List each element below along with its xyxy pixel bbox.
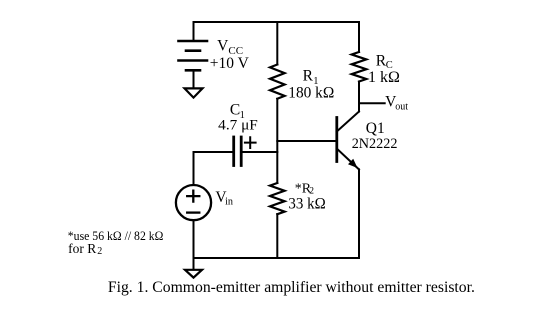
wire RC top lead: [358, 22, 360, 52]
svg-text:V: V: [217, 37, 229, 54]
svg-text:Fig. 1. Common-emitter amplifi: Fig. 1. Common-emitter amplifier without…: [108, 279, 475, 296]
svg-text:out: out: [395, 101, 408, 112]
wire bottom rail: [194, 257, 360, 259]
wire base: [277, 140, 337, 142]
wire top rail: [194, 21, 360, 23]
wire collector vertical: [358, 82, 360, 112]
resistor RC: [352, 52, 367, 82]
ground (under battery): [185, 88, 203, 97]
resistor R1: [270, 65, 285, 99]
svg-text:in: in: [225, 196, 233, 207]
wire battery top lead: [193, 22, 195, 40]
svg-text:+10 V: +10 V: [210, 55, 250, 72]
wire mid branch (R1 bottom to R2 top): [276, 99, 278, 183]
wire emitter vertical: [358, 169, 360, 258]
battery V1 VCC plates: [179, 41, 208, 70]
capacitor C1 wire left: [194, 151, 234, 153]
source Vin minus sign: [187, 211, 199, 213]
svg-text:2N2222: 2N2222: [352, 136, 398, 152]
svg-text:180 kΩ: 180 kΩ: [288, 85, 334, 102]
transistor Q1 emitter diagonal: [337, 149, 359, 170]
capacitor C1 wire right: [241, 151, 277, 153]
wire R1 top lead: [276, 22, 278, 65]
svg-text:2: 2: [97, 246, 102, 257]
capacitor C1 plates: [234, 137, 242, 166]
resistor R2: [270, 183, 285, 214]
source Vin plus sign: [187, 191, 199, 202]
svg-text:1 kΩ: 1 kΩ: [368, 69, 400, 86]
source Vin circle: [176, 185, 211, 220]
svg-text:for R: for R: [68, 241, 96, 256]
svg-text:R: R: [303, 68, 314, 85]
svg-text:4.7 μF: 4.7 μF: [218, 117, 258, 133]
wire ground stem bottom: [193, 258, 195, 270]
wire Vin bottom lead: [193, 220, 195, 258]
wire node Vout: [359, 102, 385, 104]
wire battery to ground: [193, 71, 195, 88]
wire Vin top lead: [193, 152, 195, 185]
transistor Q1 emitter arrowhead: [348, 159, 358, 168]
ground (bottom): [185, 270, 202, 278]
transistor Q1 collector diagonal: [337, 112, 359, 132]
svg-text:Q1: Q1: [366, 120, 385, 137]
wire R2 bottom lead: [276, 214, 278, 258]
svg-text:33 kΩ: 33 kΩ: [288, 196, 325, 213]
capacitor C1 plus polarity mark: [245, 137, 256, 148]
transistor Q1 base bar: [335, 118, 338, 162]
